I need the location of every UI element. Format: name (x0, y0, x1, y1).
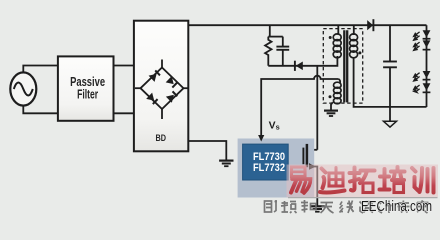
svg-text:FL7732: FL7732 (253, 162, 285, 174)
svg-text:s: s (276, 123, 280, 132)
svg-text:V: V (269, 121, 276, 132)
svg-text:BD: BD (156, 133, 167, 144)
svg-text:EEChina.com: EEChina.com (361, 198, 432, 215)
svg-text:FL7730: FL7730 (253, 151, 285, 163)
svg-text:Filter: Filter (77, 88, 98, 102)
